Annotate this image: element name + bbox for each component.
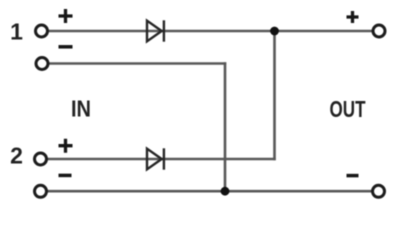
wire IN2+ horizontal (47, 158, 276, 161)
terminal IN1- (36, 58, 48, 70)
polarity + OUT (347, 11, 359, 23)
wire node riser to OUT+ (273, 31, 276, 160)
node junction at OUT- rail (221, 187, 230, 196)
polarity + IN2 (59, 139, 73, 153)
terminal OUT- (373, 185, 385, 197)
svg-text:IN: IN (71, 95, 91, 121)
terminal OUT+ (373, 25, 385, 37)
terminal IN1+ (36, 25, 48, 37)
terminal IN2+ (35, 153, 47, 165)
svg-text:1: 1 (10, 19, 23, 45)
svg-text:2: 2 (10, 143, 23, 169)
wire bottom OUT- rail (47, 190, 372, 193)
node junction at OUT+ rail (270, 27, 279, 36)
polarity - OUT (347, 174, 359, 178)
svg-text:OUT: OUT (330, 96, 366, 122)
diode D2 (147, 148, 164, 169)
diode D1 (147, 20, 164, 41)
polarity + IN1 (59, 9, 73, 23)
polarity - IN1 (59, 45, 73, 49)
wire IN1+ to OUT+ rail (48, 30, 372, 33)
terminal IN2- (35, 185, 47, 197)
wire IN1- vertical drop (224, 62, 227, 191)
polarity - IN2 (59, 174, 72, 178)
wire IN1- horizontal (49, 62, 226, 65)
